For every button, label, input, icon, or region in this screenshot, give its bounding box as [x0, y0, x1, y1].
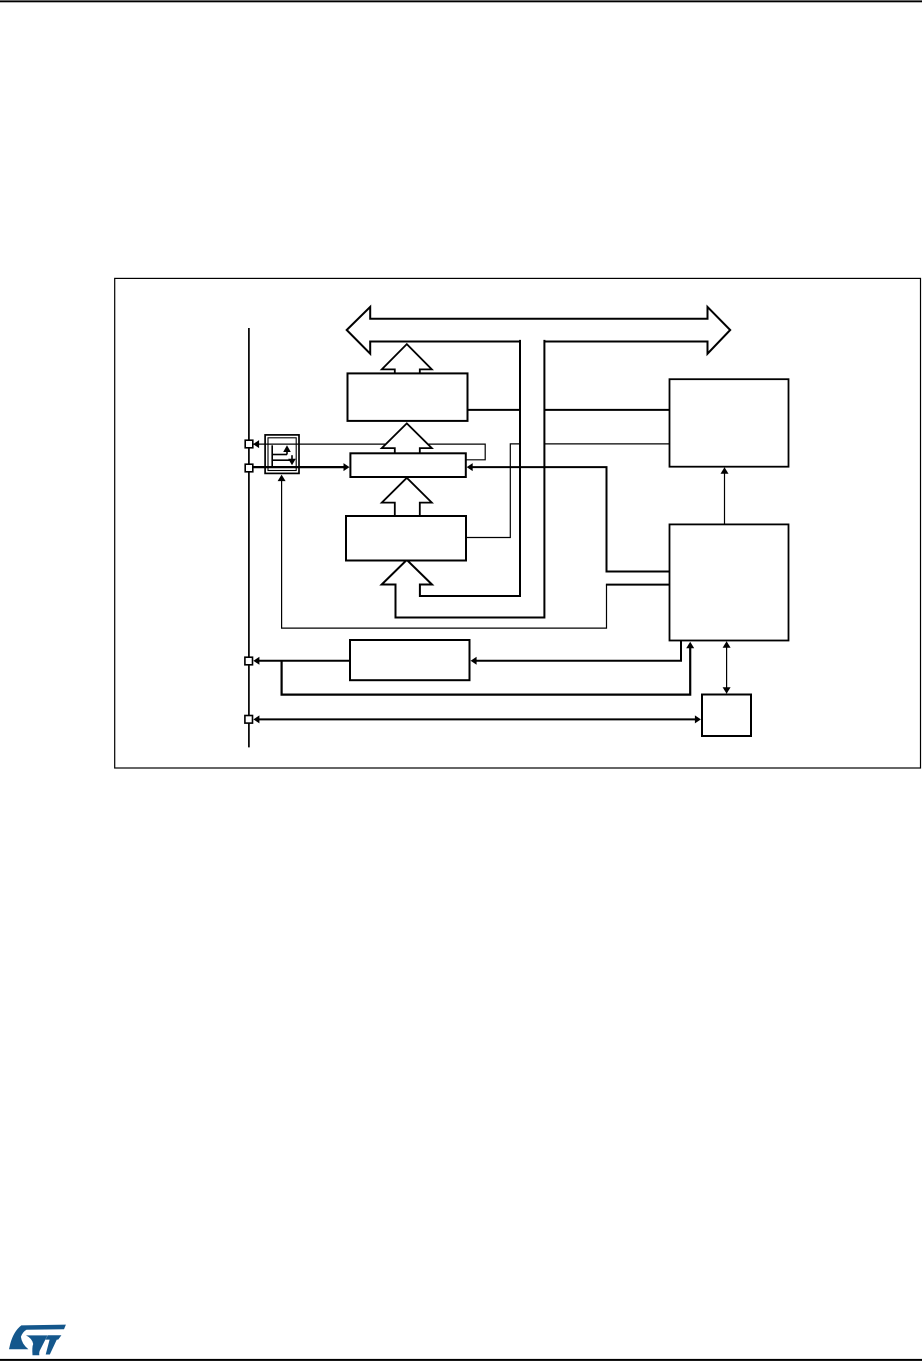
node 4 [245, 716, 253, 724]
header rule [0, 0, 922, 2]
block B1: top box [348, 373, 468, 421]
block arrow above top box [382, 344, 432, 375]
figure frame [115, 278, 921, 768]
wire: node 4 to small box (double arrow) [258, 718, 696, 720]
footer rule [0, 1359, 922, 1361]
block B6: right-middle box [670, 524, 789, 640]
wire: right-middle box to middle box right (arrow left, over trunk) [472, 467, 670, 571]
wire: top box right to right-top box (under trunk) [468, 409, 670, 411]
wire: bottom-left box left to node 3 (arrow left) [259, 660, 350, 662]
block B3: lower box [346, 516, 466, 561]
block arrow above middle box [382, 423, 432, 454]
block B5: right-top box [670, 379, 789, 467]
wire: junction to right-middle box bottom (arrow up) [282, 648, 691, 695]
arrowhead at node 1 [253, 440, 259, 448]
wire: right-middle box bottom to bottom-left box right (arrow left) [477, 641, 682, 661]
wire: right-middle box bottom to small box top (double arrow) [726, 646, 728, 689]
block arrow above lower box [382, 478, 432, 517]
wire: right-middle box top to right-top box bottom (arrow up) [724, 472, 726, 524]
node 1 [245, 440, 253, 448]
node 3 [245, 657, 253, 665]
bus trunk and block arrow into lower box bottom [382, 340, 545, 618]
ST logo [9, 1325, 66, 1356]
block B4: bottom-left box [350, 640, 470, 680]
wire: right-middle box left to symbol box bottom [606, 584, 670, 586]
wire: middle box right loop to node 1 [253, 444, 485, 460]
symbol box U1 (edge-detector, double border) [265, 435, 299, 474]
wire: lower box right to right-top box (under trunk) [466, 444, 670, 538]
bus arrow: big double-headed arrow [347, 307, 731, 354]
wire bus: main vertical line [248, 328, 250, 747]
wire: node 2 to middle box left (arrow right) [253, 466, 344, 468]
node 2 [245, 464, 253, 472]
block B7: small box [702, 695, 751, 737]
block B2: middle box [350, 453, 465, 477]
